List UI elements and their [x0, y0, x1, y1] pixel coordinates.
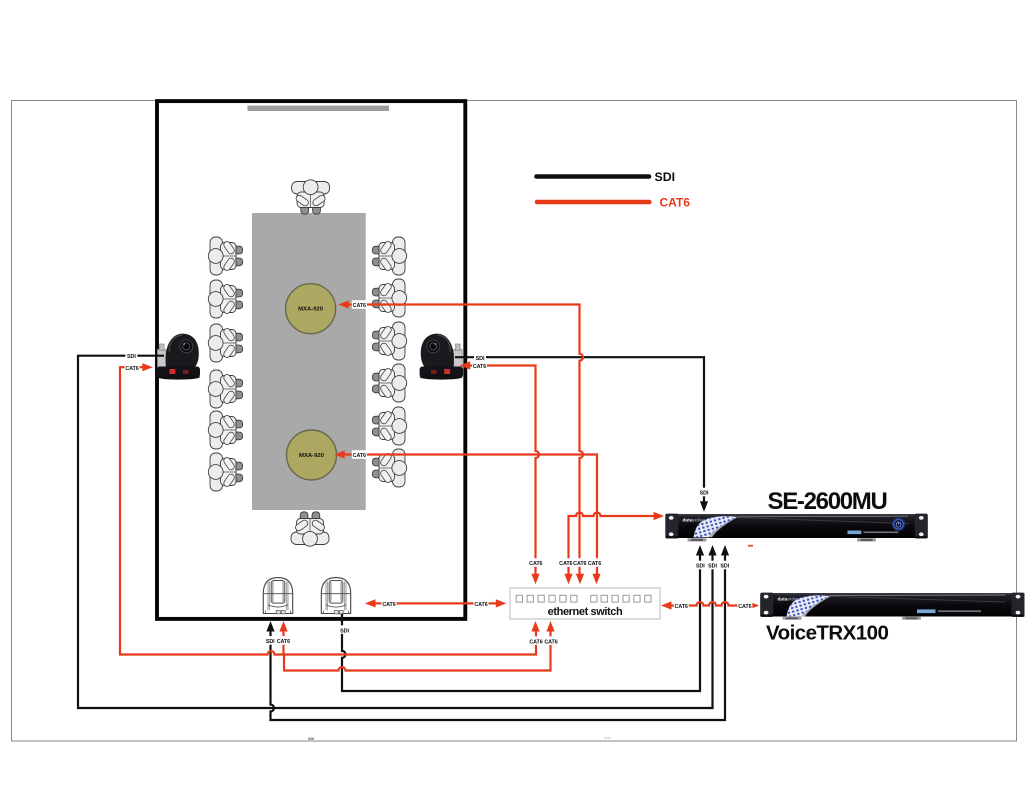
arrow SDI down into SE-2600MU top	[700, 501, 708, 512]
arrow CAT6 into switch right	[661, 601, 672, 609]
wire CAT6 upper MXA-920 to switch	[348, 305, 583, 578]
svg-text:CAT6: CAT6	[660, 196, 691, 210]
wire CAT6 switch to SE-2600MU	[569, 513, 663, 578]
svg-text:SDI: SDI	[700, 491, 709, 497]
wire SDI right camera to SE-2600MU top input	[455, 357, 704, 504]
ethernet switch ports	[516, 595, 651, 602]
label CAT6 right camera	[472, 361, 487, 370]
arrow CAT6 into lower MXA-920	[334, 450, 345, 458]
wire CAT6 lower MXA-920 to switch	[344, 455, 597, 578]
arrow CAT6 down into switch top port3	[576, 574, 584, 585]
chair left 3	[208, 324, 242, 362]
label CAT6 switch top port4	[588, 558, 601, 567]
tiny footer mark right	[604, 737, 611, 740]
arrow SDI into SE-2600MU bottom input1	[696, 545, 704, 556]
ceiling mic MXA-920 upper	[286, 284, 336, 334]
label SDI display device 1	[265, 636, 275, 645]
arrow CAT6 up into display device 1	[279, 621, 287, 632]
arrow CAT6 down into switch top port2	[564, 574, 572, 585]
wire CAT6 left camera to switch	[120, 367, 536, 654]
wire SDI left camera to SE-2600MU input2	[78, 356, 713, 708]
svg-text:CAT6: CAT6	[353, 303, 366, 309]
ceiling mic MXA-920 lower	[287, 430, 337, 480]
PTZ camera left	[157, 334, 201, 380]
chair right 5	[372, 407, 406, 445]
svg-text:SDI: SDI	[266, 639, 275, 645]
wall display bar	[248, 106, 390, 111]
VoiceTRX100 swoosh logo	[787, 595, 830, 616]
arrow CAT6 into left camera	[142, 363, 153, 371]
svg-text:SDI: SDI	[655, 170, 676, 184]
svg-text:CAT6: CAT6	[529, 561, 542, 567]
arrow SDI up into display device 1	[266, 621, 274, 632]
arrow CAT6 into VoiceTRX100 left	[749, 601, 760, 609]
svg-text:VoiceTRX100: VoiceTRX100	[766, 622, 888, 645]
svg-text:MXA-920: MXA-920	[299, 453, 325, 459]
label CAT6 in-room devices	[382, 599, 397, 608]
chair left 4	[208, 370, 242, 408]
chair left 2	[208, 280, 242, 318]
video switcher SE-2600MU chassis	[665, 514, 927, 542]
svg-text:CAT6: CAT6	[675, 604, 688, 610]
svg-text:CAT6: CAT6	[588, 561, 601, 567]
svg-text:SE-2600MU: SE-2600MU	[767, 488, 886, 515]
label CAT6 switch bottom port2	[544, 636, 557, 645]
arrow SDI into SE-2600MU bottom input3	[721, 545, 729, 556]
chair right 6	[372, 449, 406, 487]
svg-text:SDI: SDI	[708, 564, 717, 570]
arrow CAT6 down into switch top port4	[592, 574, 600, 585]
chair left 6	[208, 453, 242, 491]
svg-text:SDI: SDI	[308, 737, 314, 741]
label CAT6 switch right	[674, 601, 689, 610]
chair left 1	[208, 237, 242, 275]
svg-text:CAT6: CAT6	[738, 604, 751, 610]
arrow CAT6 into SE-2600MU left	[654, 512, 665, 520]
label CAT6 switch top port2	[559, 558, 572, 567]
arrow CAT6 toward display devices	[365, 599, 376, 607]
svg-text:SDI: SDI	[476, 356, 485, 362]
wire CAT6 display device 1 branch	[282, 629, 284, 655]
svg-text:CAT6: CAT6	[473, 364, 486, 370]
label CAT6 VoiceTRX100	[737, 601, 752, 610]
wire CAT6 switch to VoiceTRX100	[671, 602, 757, 605]
red tick under SE-2600MU	[748, 545, 753, 547]
PTZ camera right	[420, 334, 464, 380]
SE-2600MU swoosh logo	[694, 516, 737, 537]
label SDI SE-2600MU bottom3	[719, 561, 730, 570]
label CAT6 lower MXA-920	[352, 450, 367, 459]
svg-text:SDI: SDI	[340, 628, 349, 634]
label CAT6 display device 1	[277, 636, 290, 645]
svg-text:CAT6: CAT6	[474, 602, 487, 608]
label SDI SE-2600MU bottom1	[695, 561, 706, 570]
wire CAT6 right camera to switch	[470, 366, 540, 578]
chair right 3	[372, 322, 406, 360]
svg-text:CAT6: CAT6	[277, 639, 290, 645]
label CAT6 switch top port1	[529, 558, 542, 567]
arrow CAT6 down into switch top port1	[531, 574, 539, 585]
display device 2	[321, 578, 350, 614]
svg-text:SDI: SDI	[696, 564, 705, 570]
label SDI display device 2	[339, 625, 350, 634]
svg-text:CAT6: CAT6	[353, 453, 366, 459]
chair bottom head	[291, 512, 329, 546]
arrow CAT6 into upper MXA-920	[338, 300, 349, 308]
label SDI right camera	[474, 353, 486, 362]
arrow SDI into SE-2600MU bottom input2	[708, 545, 716, 556]
svg-text:MXA-920: MXA-920	[298, 307, 324, 313]
arrow CAT6 up into switch bottom port1	[531, 621, 539, 632]
svg-text:ethernet switch: ethernet switch	[548, 606, 623, 618]
wire SDI display device 2 to SE-2600MU input1	[342, 552, 700, 691]
label SDI left camera	[125, 351, 137, 360]
label SDI SE-2600MU top	[698, 488, 710, 497]
arrow CAT6 into switch left	[496, 599, 507, 607]
svg-text:CAT6: CAT6	[559, 561, 572, 567]
conference table	[252, 213, 366, 510]
label CAT6 upper MXA-920	[352, 300, 367, 309]
arrow CAT6 into right camera	[460, 361, 471, 369]
wire CAT6 display device 1 to switch bottom port2	[284, 627, 551, 671]
svg-text:CAT6: CAT6	[125, 366, 138, 372]
svg-text:SDI: SDI	[127, 354, 136, 360]
audio processor VoiceTRX100 chassis	[760, 593, 1024, 620]
chair right 2	[372, 279, 406, 317]
legend SDI line	[537, 174, 650, 179]
chair right 4	[372, 364, 406, 402]
svg-text:CAT6: CAT6	[573, 561, 586, 567]
label CAT6 switch bottom port1	[529, 636, 542, 645]
svg-text:CAT6: CAT6	[544, 639, 557, 645]
legend CAT6 line	[537, 200, 649, 205]
label CAT6 left camera	[125, 363, 140, 372]
chair top head	[292, 180, 330, 214]
wire SDI display device 1 to SE-2600MU input3	[271, 552, 726, 720]
svg-text:CAT6: CAT6	[382, 602, 395, 608]
label CAT6 switch top port3	[573, 558, 586, 567]
label SDI SE-2600MU bottom2	[707, 561, 718, 570]
label CAT6 switch left	[474, 599, 489, 608]
chair left 5	[208, 411, 242, 449]
svg-text:CAT6: CAT6	[529, 639, 542, 645]
svg-text:SDI: SDI	[720, 564, 729, 570]
arrow CAT6 up into switch bottom port2	[546, 621, 554, 632]
conference room wall	[157, 101, 465, 619]
wire CAT6 switch to display devices	[375, 602, 497, 604]
display device 1	[263, 578, 292, 614]
outer page border	[12, 101, 1017, 742]
chair right 1	[372, 237, 406, 275]
ethernet switch box	[510, 588, 660, 619]
